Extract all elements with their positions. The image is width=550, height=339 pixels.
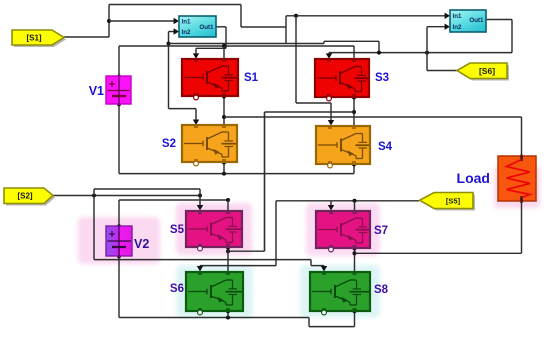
label V1 [89,84,104,98]
svg-text:S2: S2 [162,138,176,150]
wire branch to In1 of subsystem U1 [107,18,179,24]
svg-text:Out1: Out1 [469,17,484,24]
wire vertical x286 [285,16,287,44]
wire S5 E to S6 C [226,246,230,273]
svg-text:V2: V2 [134,237,149,251]
wire V1 minus rail to S2 E and S4 E [117,102,356,175]
wire S3 E to S4 C [352,96,356,127]
svg-text:S7: S7 [374,225,388,237]
IGBT S1 [182,59,238,100]
highlight halo around V2 [78,217,160,264]
wire S7 E to S8 C [353,246,357,272]
svg-text:[S1]: [S1] [26,34,41,43]
label S1 [244,72,259,84]
Load resistor block [498,156,536,201]
svg-text:In2: In2 [453,24,462,31]
label S7 [374,225,388,237]
highlight halo around S7 [306,203,380,256]
wire V1 plus rail to S1 C and S3 C [117,44,354,79]
wire vertical riser x109 [108,5,110,38]
wire from Out1 of subsystem U2 [486,20,512,53]
label S8 [374,284,389,296]
wire midpoint A to Load top [222,115,524,159]
label S3 [375,72,389,84]
wire to gate of S2 [169,109,200,125]
label V2 [134,237,149,251]
From tag [S1] [12,30,66,47]
svg-text:V1: V1 [89,84,104,98]
svg-text:Out1: Out1 [199,24,214,31]
wire from tag S2 [53,194,202,198]
svg-text:In2: In2 [182,29,191,36]
wire branch to gate of S5 [94,189,203,260]
wire into gate of S3 [326,53,332,59]
svg-text:[S6]: [S6] [479,66,495,76]
subsystem U1 [179,16,216,37]
svg-text:S8: S8 [374,284,389,296]
label S5 [170,224,185,236]
wire V2 plus to S5 C [117,198,230,228]
label Load [457,170,490,186]
wire branch to gate of S4 [294,14,334,126]
svg-text:S1: S1 [244,72,259,84]
DC voltage source V1 [106,76,131,104]
svg-text:In1: In1 [182,18,191,25]
highlight halo around S6 [176,265,253,318]
svg-text:S3: S3 [375,72,389,84]
IGBT S6 [186,272,243,315]
wire horizontal y27 [241,26,286,28]
wire V2 minus rail to S6 E and S8 E [117,254,357,326]
wire into In2 of subsystem U1 [167,28,180,108]
svg-text:[S5]: [S5] [446,197,461,206]
wire horizontal y43 In2 net [169,43,325,45]
svg-text:S4: S4 [378,141,393,153]
wire branch to gate of S8 [94,260,327,272]
svg-text:S6: S6 [170,283,184,295]
From tag [S2] [4,188,55,206]
Goto tag [S5] [420,193,475,211]
IGBT S3 [315,59,369,101]
highlight halo around S8 [300,265,380,318]
wire to In1 of subsystem U2 [286,13,450,19]
IGBT S7 [316,211,370,252]
IGBT S8 [310,272,370,315]
label S2 [162,138,176,150]
wire vertical drop x241 [240,5,242,28]
wire from tag S5 to S7 and gate of S6 [197,199,419,272]
wire S1 E to S2 C [222,95,226,127]
wire branch to In2 of U2 and tag S6 [427,24,457,71]
wire top horizontal run [109,4,241,6]
svg-text:S5: S5 [170,224,185,236]
DC voltage source V2 [106,226,132,256]
IGBT S4 [316,126,370,168]
wire step segment to y52 bus [324,41,379,52]
svg-text:Load: Load [457,170,490,186]
wire from tag S1 to corner [64,36,109,38]
wire from Out1 of U1 to gate of S1 [193,27,226,59]
wire horizontal bus y52 [329,51,512,55]
wire midpoint B down to midpoint C [226,110,356,253]
label S6 [170,283,184,295]
highlight halo around S5 [176,203,252,255]
label S4 [378,141,393,153]
highlight halo around Load [494,166,540,208]
IGBT S5 [186,211,242,251]
subsystem U2 [450,10,486,32]
wire midpoint D to Load bottom [353,199,524,256]
Goto tag [S6] [457,63,509,81]
IGBT S2 [182,125,237,166]
svg-text:[S2]: [S2] [17,192,32,201]
svg-text:In1: In1 [453,13,462,20]
